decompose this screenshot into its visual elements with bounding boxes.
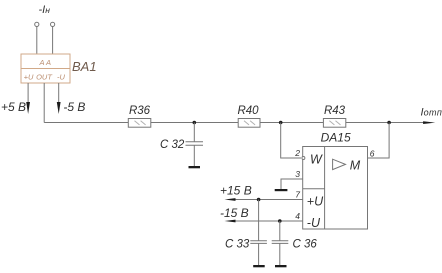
pin number 6 bbox=[370, 149, 375, 159]
svg-text:OUT: OUT bbox=[36, 72, 53, 81]
wire bbox=[279, 243, 281, 265]
label +15 В bbox=[220, 184, 252, 198]
pin number 4 bbox=[295, 211, 300, 221]
svg-text:6: 6 bbox=[370, 149, 375, 159]
svg-text:R36: R36 bbox=[129, 105, 151, 117]
wire pin6 bbox=[368, 123, 390, 159]
wire pin2 bbox=[281, 123, 301, 159]
svg-text:+5 В: +5 В bbox=[1, 100, 26, 114]
wire pin7 bbox=[235, 199, 303, 201]
terminal right bbox=[51, 22, 55, 26]
power tap -5 В arrow bbox=[57, 102, 61, 114]
wire bbox=[36, 27, 38, 55]
svg-text:-15 В: -15 В bbox=[220, 206, 249, 220]
power tap +5 В arrow bbox=[26, 102, 30, 114]
label C36 bbox=[293, 239, 318, 251]
node junction pin2 bbox=[279, 121, 283, 125]
svg-text:+U: +U bbox=[24, 72, 34, 81]
svg-text:R43: R43 bbox=[324, 105, 346, 117]
resistor R36 bbox=[128, 119, 151, 128]
svg-text:C 33: C 33 bbox=[225, 239, 250, 251]
svg-text:C 36: C 36 bbox=[293, 239, 318, 251]
resistor R43 bbox=[323, 119, 345, 128]
svg-text:Iотп: Iотп bbox=[421, 106, 442, 118]
pin number 2 bbox=[294, 148, 300, 158]
label C32 bbox=[160, 139, 185, 151]
wire pin4 bbox=[235, 220, 303, 222]
current transducer BA1 bbox=[21, 54, 70, 83]
svg-text:2: 2 bbox=[294, 148, 300, 158]
label +5 В bbox=[1, 100, 26, 114]
label DA15 bbox=[321, 131, 351, 145]
resistor R40 bbox=[238, 119, 260, 128]
node junction C33 bbox=[257, 198, 261, 202]
svg-text:R40: R40 bbox=[237, 105, 259, 117]
svg-text:-5 В: -5 В bbox=[63, 100, 85, 114]
capacitor C33 bbox=[250, 241, 267, 244]
label C33 bbox=[225, 239, 250, 251]
pin 2 circle bbox=[302, 157, 305, 160]
svg-text:C 32: C 32 bbox=[160, 139, 185, 151]
wire bus R40-R43 bbox=[260, 122, 323, 124]
node junction C32 bbox=[193, 121, 197, 125]
ground C36 bbox=[275, 265, 287, 267]
ground C33 bbox=[253, 265, 265, 267]
node junction C36 bbox=[278, 219, 282, 223]
output arrow Iотп bbox=[423, 121, 435, 124]
label -5 В bbox=[63, 100, 85, 114]
wire bbox=[58, 83, 60, 103]
wire bbox=[193, 145, 195, 166]
pin number 7 bbox=[295, 190, 300, 200]
wire bbox=[193, 123, 195, 142]
label BA1 bbox=[72, 59, 97, 74]
wire bus R43-output bbox=[346, 122, 425, 124]
label Iотп bbox=[421, 106, 442, 118]
capacitor C32 bbox=[186, 142, 204, 145]
svg-text:-Iн: -Iн bbox=[39, 4, 51, 16]
node junction pin6 bbox=[387, 121, 391, 125]
wire bbox=[27, 83, 29, 103]
label R43 bbox=[324, 105, 346, 117]
svg-text:W: W bbox=[310, 152, 323, 166]
wire pin3 bbox=[281, 179, 303, 189]
capacitor C36 bbox=[272, 241, 289, 244]
svg-text:-U: -U bbox=[57, 72, 65, 81]
wire bbox=[279, 221, 281, 241]
ground C32 bbox=[189, 166, 201, 168]
svg-text:AA: AA bbox=[38, 58, 52, 67]
svg-text:DA15: DA15 bbox=[321, 131, 351, 145]
svg-text:+15 В: +15 В bbox=[220, 184, 252, 198]
wire bus R36-R40 bbox=[151, 122, 238, 124]
wire bbox=[52, 27, 54, 55]
svg-text:BA1: BA1 bbox=[72, 59, 97, 74]
svg-text:4: 4 bbox=[295, 211, 300, 221]
power arrow -15 В bbox=[225, 220, 236, 223]
power arrow +15 В bbox=[225, 198, 236, 201]
label R40 bbox=[237, 105, 259, 117]
svg-text:3: 3 bbox=[295, 169, 300, 179]
svg-text:+U: +U bbox=[307, 195, 324, 209]
terminal left bbox=[35, 22, 39, 26]
wire bbox=[258, 243, 260, 265]
ground pin3 bbox=[275, 189, 288, 191]
wire bbox=[258, 200, 260, 241]
wire main bus left bbox=[44, 122, 128, 124]
label -15 В bbox=[220, 206, 249, 220]
svg-text:-U: -U bbox=[307, 216, 321, 230]
pin number 3 bbox=[295, 169, 300, 179]
op-amp DA15 bbox=[303, 147, 368, 230]
label R36 bbox=[129, 105, 151, 117]
svg-text:M: M bbox=[350, 158, 361, 172]
node -Iн label bbox=[39, 4, 51, 16]
wire OUT lead bbox=[43, 83, 45, 123]
svg-text:7: 7 bbox=[295, 190, 300, 200]
